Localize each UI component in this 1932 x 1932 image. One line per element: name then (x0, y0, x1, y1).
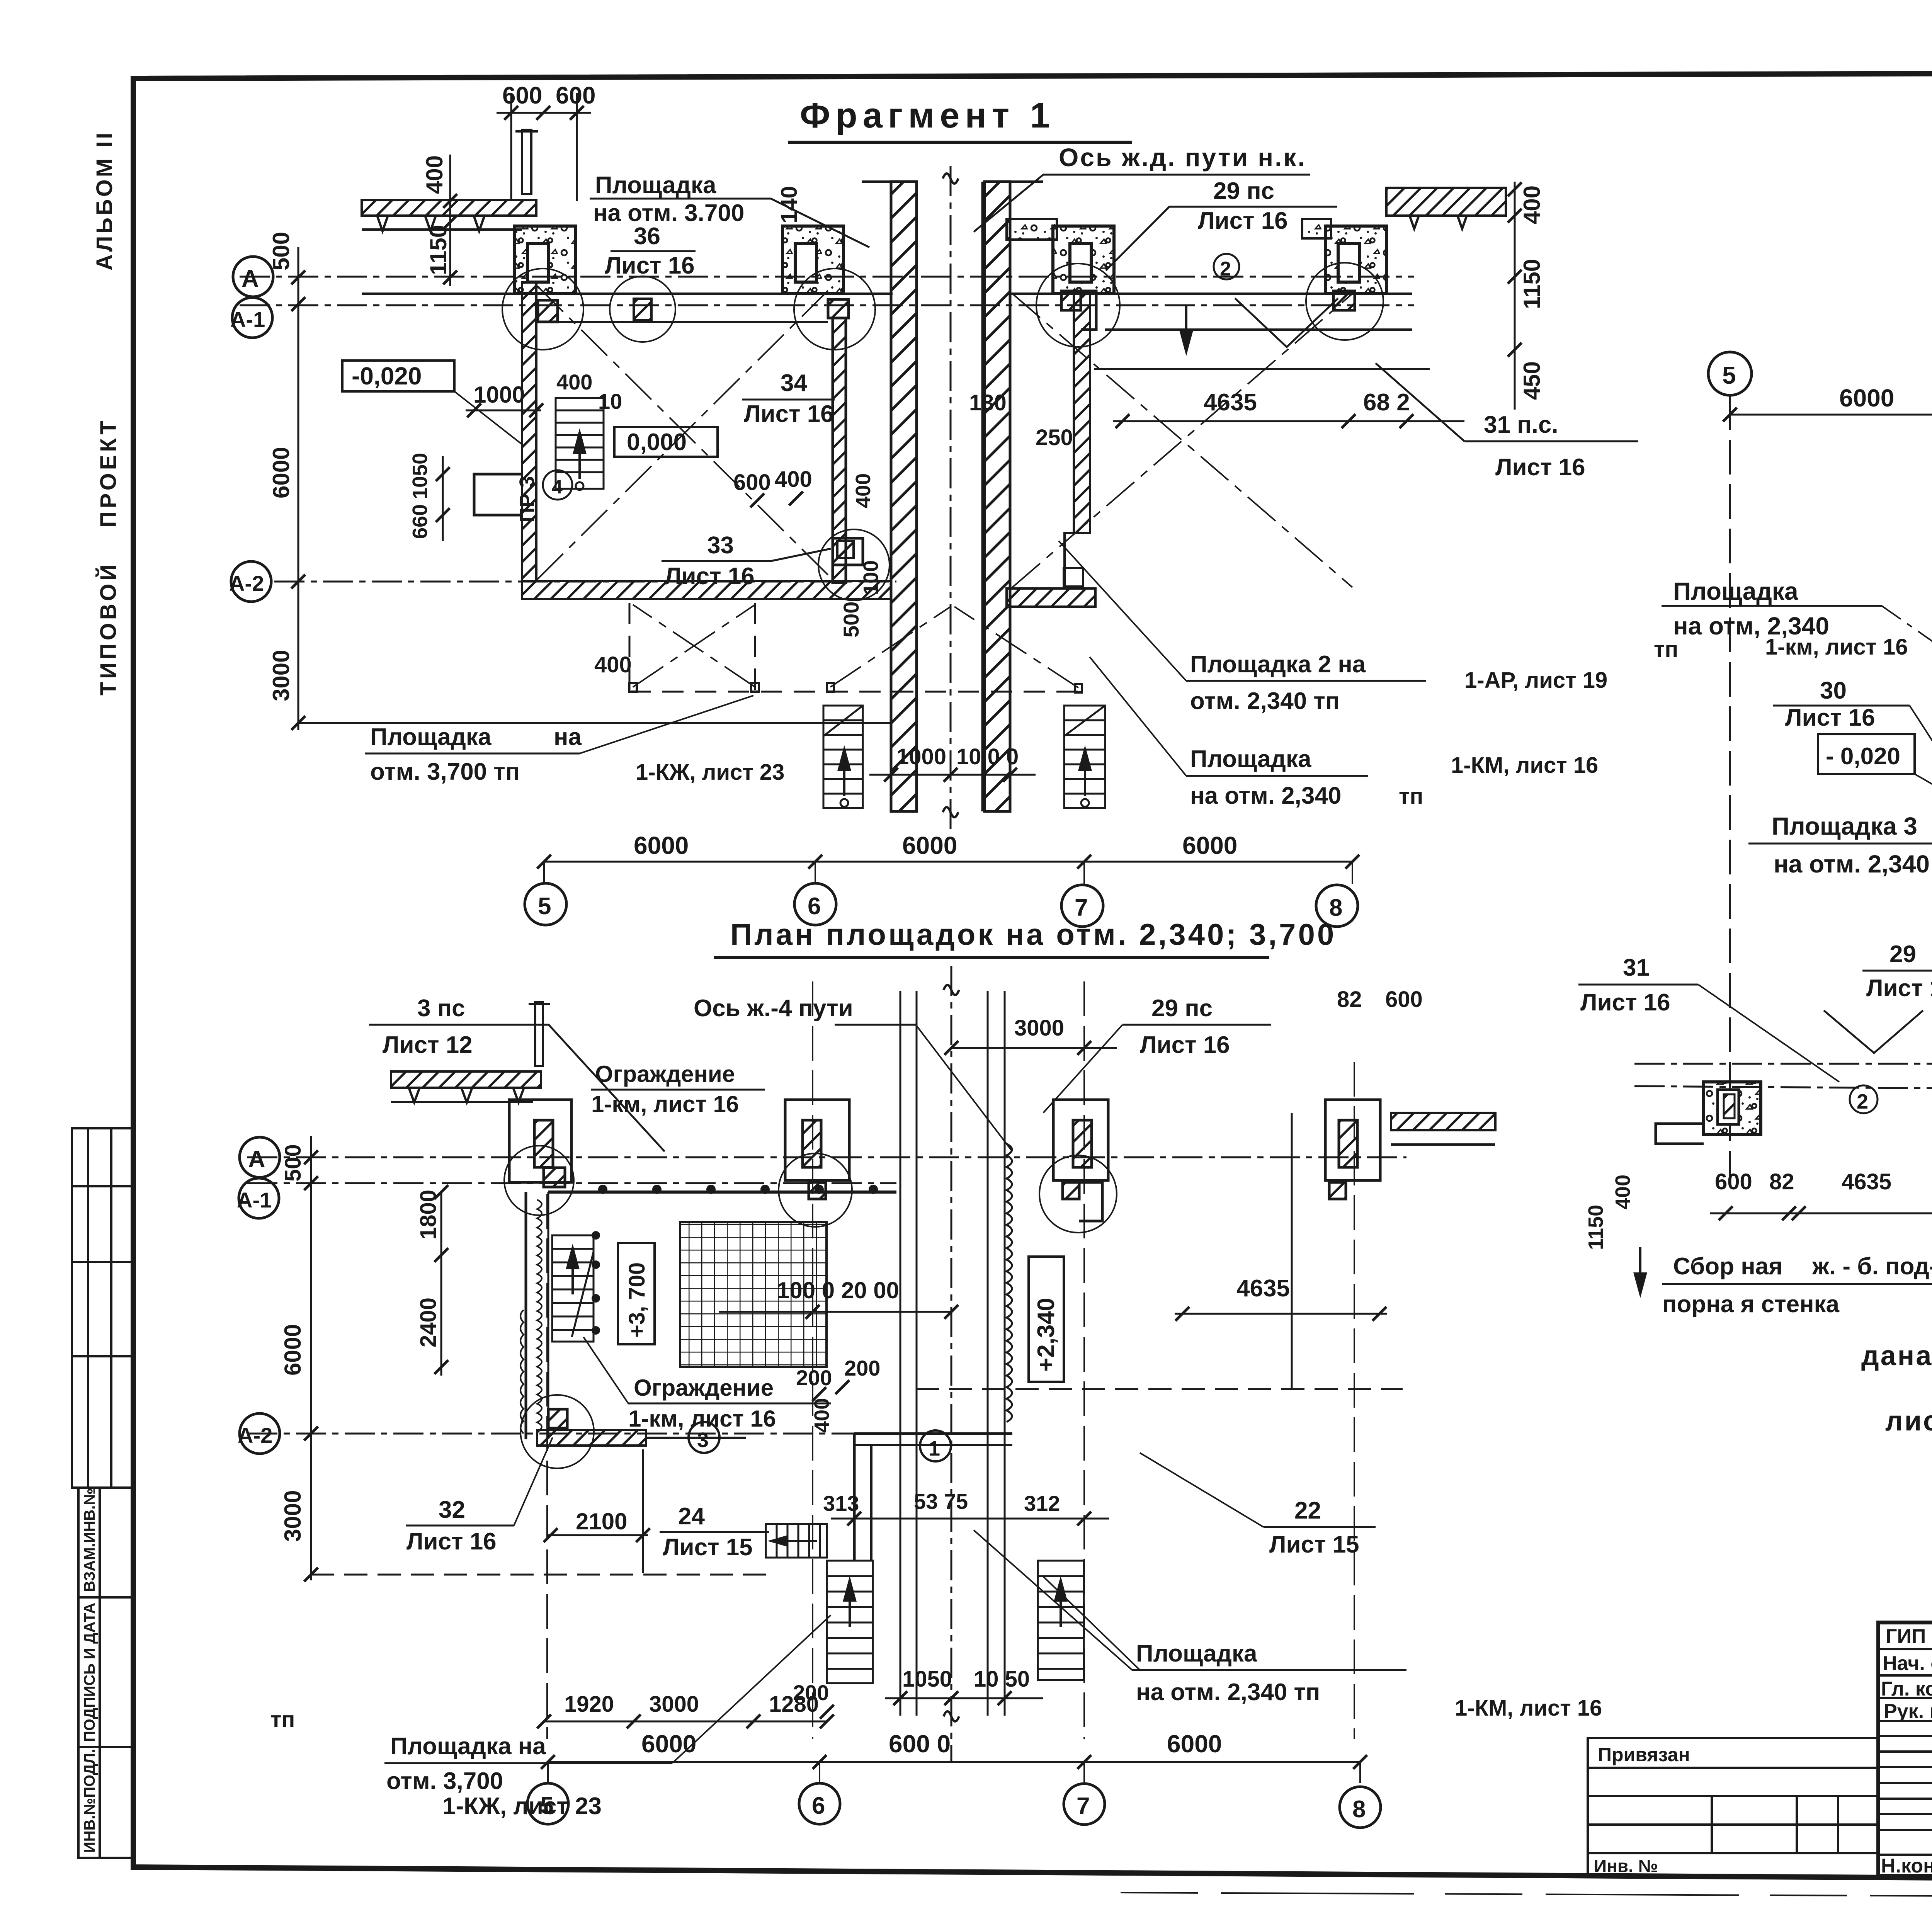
slab stub pieces (1007, 219, 1057, 240)
bottom foundation band (537, 1430, 646, 1446)
svg-text:1000: 1000 (896, 744, 946, 769)
svg-text:2: 2 (1857, 1090, 1868, 1113)
room right wall (833, 318, 846, 583)
pad axis6 (plan) (785, 1100, 849, 1180)
svg-text:312: 312 (1024, 1491, 1060, 1515)
mesh grid platform (680, 1222, 827, 1367)
-0,020 box (342, 361, 454, 391)
svg-text:А: А (248, 1146, 265, 1173)
svg-text:тп: тп (1654, 637, 1678, 662)
svg-text:А-2: А-2 (238, 1423, 272, 1447)
svg-text:140: 140 (777, 186, 802, 223)
svg-text:на отм. 2,340: на отм. 2,340 (1190, 782, 1341, 809)
svg-text:600: 600 (1385, 987, 1423, 1012)
svg-text:Лист 16: Лист 16 (605, 252, 695, 279)
svg-text:А-1: А-1 (237, 1188, 272, 1212)
svg-text:500: 500 (839, 602, 863, 638)
svg-text:6000: 6000 (1167, 1730, 1222, 1758)
svg-text:на отм. 2,340: на отм. 2,340 (1774, 850, 1930, 878)
svg-text:1-км, лист 16: 1-км, лист 16 (628, 1406, 776, 1432)
svg-text:Площадка: Площадка (370, 724, 492, 750)
circle A-2 (231, 561, 271, 602)
svg-text:Площадка 2 на: Площадка 2 на (1190, 651, 1366, 678)
pad column axis6 (782, 226, 875, 350)
svg-text:Лист 16: Лист 16 (1140, 1032, 1230, 1058)
-0,020 box (1818, 734, 1915, 774)
track rails lower plan (900, 991, 1005, 1716)
svg-text:1280: 1280 (769, 1692, 819, 1717)
svg-text:Нач. отд: Нач. отд (1883, 1652, 1932, 1675)
mid small square detail (634, 299, 651, 320)
outer rect (1878, 1622, 1932, 1876)
svg-text:Площадка: Площадка (1136, 1640, 1257, 1667)
+2,340 box rotated (1029, 1257, 1064, 1382)
svg-text:31 п.с.: 31 п.с. (1484, 412, 1558, 438)
svg-text:Гл. конст: Гл. конст (1881, 1678, 1932, 1700)
svg-text:1-АР, лист 19: 1-АР, лист 19 (1464, 668, 1607, 693)
svg-text:Ограждение: Ограждение (595, 1061, 735, 1087)
v checks (1824, 1010, 1923, 1053)
svg-text:на отм. 2,340 тп: на отм. 2,340 тп (1136, 1679, 1320, 1706)
svg-text:ПР 3: ПР 3 (515, 476, 539, 522)
svg-text:Лист 15: Лист 15 (663, 1534, 753, 1561)
svg-text:34: 34 (781, 370, 807, 396)
circle 2 on axis (1214, 254, 1239, 279)
svg-text:400: 400 (1519, 185, 1545, 224)
slab section far right (1386, 188, 1506, 216)
down arrow (1181, 305, 1192, 352)
svg-text:400: 400 (556, 370, 592, 394)
svg-text:22: 22 (1294, 1497, 1321, 1524)
svg-text:1920: 1920 (564, 1692, 614, 1717)
circles 5 6 7 8 (525, 883, 566, 925)
foundation pads fr2 (axes 5,6,7,8) (1656, 1082, 1932, 1145)
svg-text:400: 400 (810, 1398, 833, 1433)
svg-text:6000: 6000 (902, 832, 957, 859)
svg-text:Площадка: Площадка (1673, 577, 1798, 605)
svg-text:400: 400 (852, 473, 875, 508)
bottom wall band (522, 581, 891, 599)
svg-text:Лист 15: Лист 15 (1269, 1531, 1359, 1558)
svg-text:1150: 1150 (1584, 1205, 1607, 1250)
bottom dim line (548, 1761, 1360, 1763)
svg-text:36: 36 (634, 223, 660, 250)
svg-text:6: 6 (812, 1793, 825, 1819)
svg-text:листе 9.: листе 9. (1885, 1406, 1932, 1437)
post (535, 1002, 543, 1066)
svg-text:100 0 20 00: 100 0 20 00 (777, 1277, 899, 1303)
svg-text:-0,020: -0,020 (352, 362, 422, 390)
svg-text:6000: 6000 (641, 1730, 696, 1758)
svg-text:500: 500 (281, 1144, 306, 1182)
svg-text:6000: 6000 (634, 832, 689, 859)
svg-text:3000: 3000 (649, 1692, 699, 1717)
svg-text:Инв. №: Инв. № (1594, 1856, 1658, 1876)
svg-text:отм. 2,340 тп: отм. 2,340 тп (1190, 688, 1340, 714)
svg-text:400: 400 (594, 652, 632, 677)
svg-text:отм. 3,700: отм. 3,700 (386, 1768, 503, 1794)
pad column axis8 (1306, 226, 1386, 340)
axis lines lower plan (247, 1156, 1406, 1158)
circle A-1 (232, 298, 272, 338)
room top wall (548, 1190, 896, 1194)
svg-text:ПОДПИСЬ И ДАТА: ПОДПИСЬ И ДАТА (81, 1603, 98, 1742)
svg-text:Лист 12: Лист 12 (383, 1032, 473, 1058)
svg-text:2: 2 (1220, 258, 1231, 280)
svg-text:600 0: 600 0 (889, 1730, 951, 1758)
svg-text:600: 600 (556, 82, 595, 109)
svg-text:3: 3 (697, 1429, 709, 1452)
protrusion step left (474, 474, 522, 515)
svg-text:1-КМ, лист 16: 1-КМ, лист 16 (1455, 1696, 1602, 1721)
svg-text:ВЗАМ.ИНВ.№: ВЗАМ.ИНВ.№ (81, 1488, 98, 1592)
svg-text:дана на листе 8: дана на листе 8 (1861, 1340, 1932, 1371)
svg-text:6000: 6000 (1839, 384, 1894, 412)
top slab band (391, 1071, 541, 1088)
svg-text:Фрагмент 1: Фрагмент 1 (800, 96, 1055, 135)
Б-1 Б lines and circles (1634, 1063, 1932, 1065)
svg-text:тп: тп (270, 1707, 295, 1732)
left stamp lower strip (78, 1488, 133, 1858)
svg-text:Площадка: Площадка (1190, 746, 1311, 772)
svg-text:10 0 0: 10 0 0 (956, 744, 1019, 769)
pad column axis7 (1036, 226, 1120, 347)
svg-text:29: 29 (1889, 941, 1916, 968)
room left wall w/ zigzag (525, 1192, 527, 1439)
left vertical dim chain (298, 247, 299, 730)
svg-text:29 пс: 29 пс (1151, 995, 1213, 1022)
slab band right of axis8 (1391, 1113, 1495, 1130)
svg-text:Площадка: Площадка (595, 172, 716, 199)
circles А А-1 А-2 lower (240, 1137, 280, 1177)
svg-text:4635: 4635 (1842, 1169, 1891, 1194)
vertical stairs bottom (827, 1561, 1084, 1683)
svg-text:1-км, лист 16: 1-км, лист 16 (1765, 634, 1908, 660)
svg-text:А: А (241, 265, 259, 292)
room bottom wall part (854, 1432, 1012, 1435)
svg-text:400: 400 (1611, 1175, 1634, 1209)
svg-text:1: 1 (929, 1437, 940, 1460)
svg-text:82: 82 (1769, 1169, 1794, 1194)
svg-text:5: 5 (538, 893, 551, 920)
left wall hatched (522, 282, 536, 581)
svg-text:Лист 16: Лист 16 (1495, 454, 1585, 481)
svg-text:1-км, лист 16: 1-км, лист 16 (591, 1091, 739, 1117)
svg-text:А-2: А-2 (229, 571, 264, 595)
circle 1 (920, 1430, 951, 1461)
svg-text:ж. - б. под-: ж. - б. под- (1812, 1253, 1932, 1280)
svg-text:53 75: 53 75 (914, 1489, 968, 1514)
svg-text:7: 7 (1077, 1793, 1090, 1820)
svg-text:Площадка на: Площадка на (390, 1733, 546, 1760)
roof slab section left (362, 200, 536, 216)
svg-text:3000: 3000 (280, 1490, 306, 1542)
svg-text:0,000: 0,000 (627, 429, 687, 456)
left table rows (1878, 1649, 1932, 1855)
bottom dim line fr1 (544, 861, 1352, 863)
svg-text:1050: 1050 (902, 1667, 952, 1692)
axis stems down (1730, 395, 1932, 1194)
svg-text:29 пс: 29 пс (1213, 178, 1274, 204)
pad column axis5 (502, 226, 583, 350)
svg-text:Лист 16: Лист 16 (1580, 989, 1670, 1016)
svg-text:тп: тп (1399, 784, 1423, 809)
+3,700 box rotated (618, 1243, 655, 1344)
axis circles row (1708, 352, 1752, 395)
dashed platform outline (629, 603, 1078, 692)
interior lines below pads (362, 293, 893, 295)
svg-text:400: 400 (775, 467, 812, 492)
svg-text:ТИПОВОЙ: ТИПОВОЙ (96, 561, 121, 696)
svg-text:10 50: 10 50 (974, 1667, 1030, 1692)
axis A dash-dot (240, 276, 1414, 278)
circles 5-8 bottom (527, 1783, 568, 1824)
svg-text:на отм. 3.700: на отм. 3.700 (593, 200, 744, 226)
svg-text:33: 33 (707, 532, 734, 559)
svg-text:1-КЖ, лист 23: 1-КЖ, лист 23 (442, 1793, 602, 1820)
wavy fence line (1007, 1144, 1012, 1422)
left stamp upper table (72, 1128, 133, 1488)
corner module near track (axisА) (509, 1100, 571, 1182)
svg-text:Лист 16: Лист 16 (406, 1528, 497, 1555)
small stair horizontal (766, 1524, 827, 1558)
svg-text:Лист 16: Лист 16 (744, 401, 834, 427)
svg-text:68 2: 68 2 (1363, 389, 1410, 416)
svg-text:Н.контр.: Н.контр. (1881, 1855, 1932, 1877)
svg-text:4635: 4635 (1204, 389, 1257, 416)
svg-text:6: 6 (808, 893, 821, 920)
notes (1861, 1309, 1932, 1437)
v checks (1235, 298, 1338, 347)
svg-text:Лист 16: Лист 16 (1198, 207, 1288, 234)
pad axis7 (plan) (1053, 1100, 1108, 1180)
svg-text:250: 250 (1036, 425, 1073, 450)
left dim chain lower (310, 1136, 312, 1580)
svg-text:+2,340: +2,340 (1033, 1298, 1060, 1372)
track strips fr1 (891, 182, 917, 811)
svg-text:А-1: А-1 (230, 307, 265, 332)
svg-text:3 пс: 3 пс (417, 995, 465, 1022)
fence dots top wall (592, 1185, 878, 1335)
svg-text:200: 200 (844, 1356, 880, 1380)
svg-text:5: 5 (540, 1793, 553, 1819)
paper bottom scan line (1121, 1893, 1932, 1899)
svg-text:6000: 6000 (280, 1324, 306, 1376)
svg-text:450: 450 (1519, 361, 1545, 400)
svg-text:ПРОЕКТ: ПРОЕКТ (96, 418, 121, 527)
circle 2 fr2 left span (1850, 1085, 1878, 1113)
svg-text:82: 82 (1337, 987, 1362, 1012)
svg-text:24: 24 (678, 1503, 705, 1530)
circle 3 (689, 1422, 719, 1453)
svg-text:2100: 2100 (576, 1509, 627, 1534)
svg-text:500: 500 (268, 232, 294, 270)
svg-text:30: 30 (1820, 677, 1847, 704)
svg-text:400: 400 (422, 155, 447, 194)
svg-text:660: 660 (408, 504, 432, 539)
svg-text:отм. 3,700 тп: отм. 3,700 тп (370, 759, 520, 785)
svg-text:4: 4 (552, 476, 563, 498)
svg-text:600: 600 (733, 470, 771, 495)
svg-text:600: 600 (502, 82, 542, 109)
svg-text:4635: 4635 (1236, 1275, 1290, 1302)
svg-text:3000: 3000 (1014, 1015, 1064, 1041)
svg-text:Привязан: Привязан (1598, 1744, 1690, 1765)
svg-text:Площадка 3: Площадка 3 (1772, 812, 1917, 840)
svg-text:200: 200 (796, 1366, 832, 1390)
axis A-1 dash-dot (240, 304, 1414, 306)
svg-text:6000: 6000 (1182, 832, 1237, 859)
svg-text:Лист 16: Лист 16 (1785, 704, 1875, 731)
post above wall (522, 130, 531, 194)
svg-text:313: 313 (823, 1491, 859, 1515)
svg-text:Ось ж.д. пути н.к.: Ось ж.д. пути н.к. (1059, 143, 1306, 172)
svg-text:на: на (554, 724, 582, 750)
0,000 box (614, 427, 718, 457)
circle A (233, 257, 273, 297)
svg-text:600: 600 (1715, 1169, 1752, 1194)
svg-text:1150: 1150 (1519, 259, 1545, 309)
svg-text:3000: 3000 (268, 650, 294, 701)
svg-text:8: 8 (1352, 1796, 1366, 1823)
svg-text:Ограждение: Ограждение (634, 1375, 774, 1401)
svg-text:1-КМ, лист 16: 1-КМ, лист 16 (1451, 753, 1598, 778)
привязан table (1588, 1738, 1878, 1876)
svg-text:1-КЖ, лист 23: 1-КЖ, лист 23 (636, 760, 784, 785)
svg-text:+3, 700: +3, 700 (624, 1262, 650, 1338)
left margin rotated texts (92, 131, 121, 696)
svg-text:1050: 1050 (408, 453, 432, 499)
svg-text:ГИП: ГИП (1886, 1625, 1926, 1648)
svg-text:6000: 6000 (268, 447, 294, 498)
left table texts (1881, 1625, 1932, 1877)
svg-text:1150: 1150 (425, 225, 451, 275)
svg-text:130: 130 (969, 390, 1007, 415)
corner module bottom-right (833, 538, 863, 565)
svg-text:2400: 2400 (416, 1298, 441, 1347)
room diagonals (537, 286, 1352, 587)
svg-text:Рук. гр.: Рук. гр. (1884, 1700, 1932, 1723)
svg-text:порна я стенка: порна я стенка (1662, 1291, 1840, 1318)
svg-text:1800: 1800 (416, 1190, 441, 1240)
svg-text:31: 31 (1623, 954, 1650, 981)
svg-text:32: 32 (439, 1497, 465, 1523)
stair in room (556, 398, 604, 490)
svg-text:Лист 16: Лист 16 (1866, 975, 1932, 1002)
pad axis8 (plan) (1325, 1100, 1380, 1180)
axis verticals (lower) (547, 981, 1354, 1739)
stairs lower fr1 (823, 706, 1105, 808)
right boundary platform2 (1291, 1113, 1293, 1388)
inner dim chain 1800 2400 (440, 1192, 442, 1376)
svg-text:5: 5 (1722, 361, 1736, 389)
stair lower room (552, 1235, 594, 1342)
svg-text:Ось ж.-4 пути: Ось ж.-4 пути (694, 995, 853, 1022)
svg-text:План площадок на отм. 2,34: План площадок на отм. 2,340; 3,700 (730, 917, 1336, 951)
svg-text:Сбор ная: Сбор ная (1673, 1253, 1782, 1280)
svg-text:ИНВ.№ПОДЛ.: ИНВ.№ПОДЛ. (81, 1749, 98, 1853)
svg-text:АЛЬБОМ II: АЛЬБОМ II (92, 131, 117, 270)
svg-text:- 0,020: - 0,020 (1826, 743, 1900, 770)
